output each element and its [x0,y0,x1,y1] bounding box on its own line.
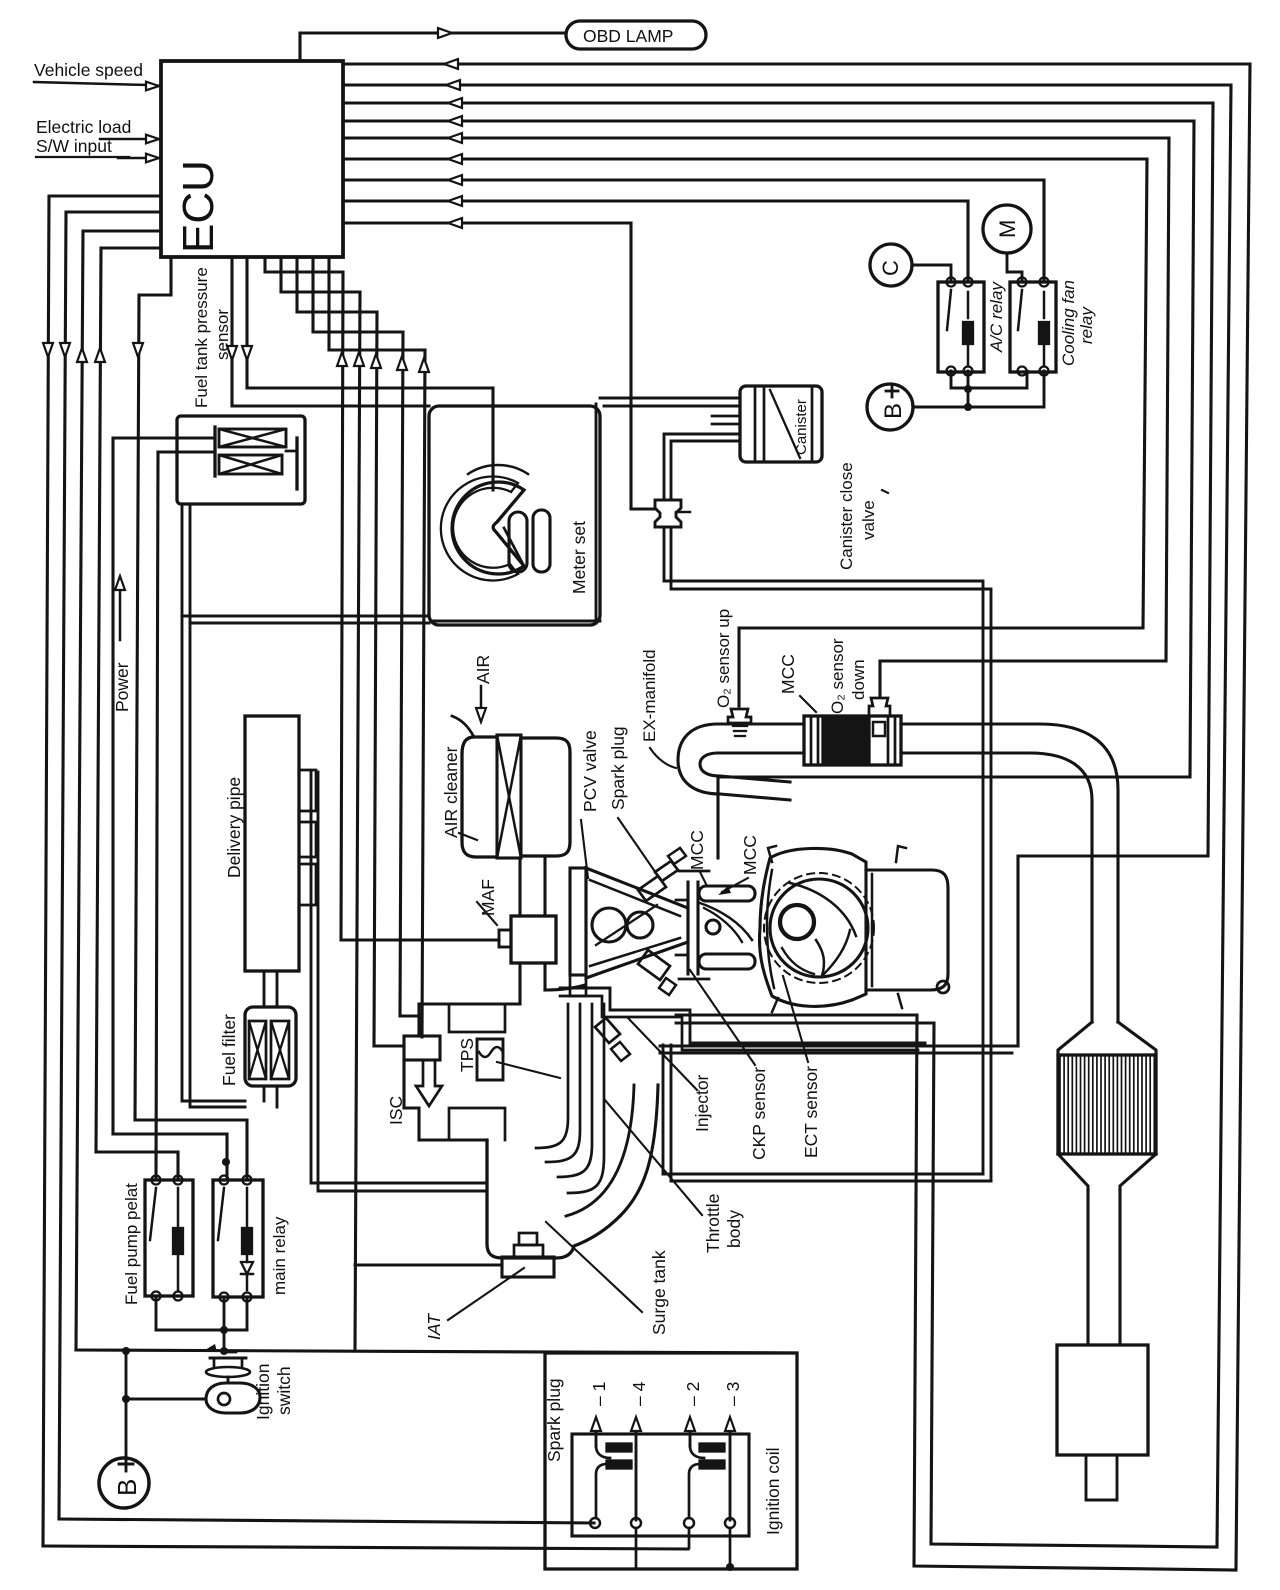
coil bottom wire 2 [688,1528,691,1548]
center circle [706,920,720,934]
FTP wire 2 [158,451,215,454]
bellhousing outline [760,848,867,1006]
svg-text:body: body [724,1210,744,1248]
fuel pump relay box [145,1180,193,1296]
svg-text:Surge tank: Surge tank [649,1250,669,1335]
svg-text:Ignition: Ignition [253,1364,273,1420]
AIR arrow [480,686,483,706]
svg-text:Vehicle speed: Vehicle speed [34,60,143,80]
svg-text:– 3: – 3 [723,1382,743,1406]
svg-text:TPS: TPS [457,1038,477,1072]
engine mount steps lower [560,988,925,1043]
svg-text:MCC: MCC [778,654,798,694]
gauge top arc [468,465,528,474]
main relay diode [241,1262,253,1274]
ignition switch flange [206,1367,250,1377]
IAT wire [355,1264,502,1267]
IAT pointer [448,1268,524,1320]
OBD LAMP stadium [566,21,706,49]
MCC pipe upper [699,886,755,901]
coil terminals [590,1518,600,1528]
fuel line pipe pair [182,504,245,1101]
wire C to A/C relay [912,265,951,282]
meter gauge body [452,482,524,574]
surge tank body [487,1140,620,1258]
gauge needle [504,528,524,566]
exhaust manifold bend [678,724,720,794]
fuel tank pressure sensor outer box [177,416,305,504]
catalytic converter body (hatched) [1058,1055,1156,1154]
MAF sensor body [511,916,556,963]
svg-text:O₂ sensor: O₂ sensor [828,638,847,714]
O2 sensor down body [869,698,890,716]
ISC connector box [404,1036,440,1060]
wire long line to B+ [125,1351,128,1459]
svg-text:Injector: Injector [692,1074,712,1132]
AIR cleaner inlet lip [452,716,474,737]
relay bottom bus wires [951,371,1027,388]
wire D ECU-left to fuel pump relay [96,248,178,1180]
throttle body channel [419,1004,437,1036]
delivery pipe injector stub 2 [299,822,316,857]
canister stub 2 [712,415,740,418]
plug wire 4 [635,1424,638,1520]
O2 sensor up body [728,709,751,723]
long horizontal wire to ignition coil box [76,1350,797,1353]
svg-text:Spark plug: Spark plug [544,1378,564,1462]
svg-text:Throttle: Throttle [703,1194,723,1253]
exhaust manifold pipe upper [718,722,804,725]
ignition coil outer box [545,1353,797,1569]
throttle body inner arc [566,1085,634,1216]
wire FTP-sensor 2 to fuel pump relay [156,452,158,1180]
lower horizontal pipe pair [663,1173,983,1176]
ECT pipe pair [660,1045,1018,1048]
FTP coil upper X-box [219,429,286,447]
svg-text:CKP sensor: CKP sensor [749,1067,769,1160]
svg-text:Fuel pump pelat: Fuel pump pelat [122,1183,141,1305]
exhaust pipe MCC to catalyst downpipe [901,724,1118,1022]
main relay box [213,1180,263,1297]
transmission inner line [871,874,874,986]
throttle body outer arc [620,1085,658,1216]
valve outlet pipe to right run [664,527,983,1174]
svg-text:down: down [849,659,868,700]
small window on MCC [873,722,885,736]
head lower-left block [570,975,586,996]
connector C [870,244,912,286]
svg-text:C: C [878,260,903,276]
inner bottom border to ignition coil [59,1519,594,1523]
throttle lower body [449,1108,505,1140]
svg-text:Power: Power [112,662,132,712]
engine center block rails [686,882,689,974]
intake runner elbow 3 [558,1004,592,1177]
intake ports [592,908,626,942]
wire f4 to throttle body [313,257,420,1016]
MCC body [804,716,901,765]
svg-text:Spark plug: Spark plug [608,726,628,810]
AIR cleaner right housing [521,738,570,856]
svg-text:valve: valve [859,500,878,540]
svg-text:MCC: MCC [687,830,707,870]
motor M [983,205,1031,253]
meter-set bottom pipe pair [182,615,429,618]
AIR cleaner housing [462,737,497,857]
svg-text:Electric load: Electric load [36,117,131,137]
catalytic converter inlet cone [1058,1022,1092,1055]
TPS sensor [477,1039,503,1080]
svg-text:AIR: AIR [473,655,493,684]
FTP left plate [213,427,216,476]
relay bottom wires [156,1296,224,1330]
B+ top circle [867,384,913,430]
delivery pipe injector stub 1 [299,770,316,811]
svg-text:Canister: Canister [793,399,810,455]
intake duct cleaner to MAF [518,858,521,916]
wire electric load [100,138,161,141]
MAF connector stub [499,930,511,947]
filter outlet stub [263,1086,266,1101]
svg-text:IAT: IAT [424,1313,444,1340]
ignition switch stem [227,1377,230,1383]
B+ feed wire [913,371,1044,407]
svg-text:A/C relay: A/C relay [987,281,1006,353]
wire f2 to bottom line [281,257,360,1351]
svg-text:Fuel tank pressure: Fuel tank pressure [192,267,211,408]
wire f1 to MAF [265,257,499,940]
B+ battery circle [99,1458,149,1508]
svg-text:– 4: – 4 [629,1381,649,1406]
ISC hollow arrow [416,1060,442,1106]
ignition switch arrow [205,1344,217,1352]
svg-text:Delivery pipe: Delivery pipe [224,777,244,878]
surge tank pointer [546,1222,642,1312]
ECU box [161,61,343,257]
flywheel spokes [790,883,856,936]
svg-text:Ignition coil: Ignition coil [763,1447,783,1535]
wire B ECU-left inner border [59,212,161,1519]
cooling fan relay coil [1039,322,1049,344]
intake runner elbow 2 [546,1004,580,1162]
canister bottom pipe to valve [664,434,740,500]
transmission body [866,870,948,990]
wire vehicle speed into ECU [148,85,161,86]
delivery pipe body [245,716,299,971]
muffler outer box left edge and bottom [914,1015,1236,1570]
wire L1 ECU to right border [343,64,1250,1568]
rail flanges [679,870,709,873]
wire L5 ECU to O2 sensor down [343,138,1169,698]
svg-text:main relay: main relay [270,1216,289,1295]
delivery pipe injector stub 3 [299,864,316,905]
pipe pair engine to lower-right loop [676,1014,917,1017]
wire L6 ECU to O2 sensor up [343,159,1147,706]
plug wire 3 [729,1424,732,1520]
meter set box [429,406,600,625]
FTP right T plate [295,438,298,489]
wire C ECU-left to long line [76,231,161,1350]
wire ECU to OBD lamp [300,33,566,61]
ignition coil inner box [572,1434,749,1536]
svg-text:B: B [880,403,907,419]
plug wire 1 [595,1424,598,1446]
wire W1 ECU to meter gauge [247,257,493,490]
left pipe pair risers [662,1045,665,1174]
surge tank top left [449,1138,487,1141]
flywheel dashed ring [764,873,874,983]
fuel pump relay coil [173,1228,183,1254]
engine head left flange [570,868,586,975]
svg-text:sensor: sensor [213,309,232,360]
wire f5 to ISC connector [329,257,425,1037]
svg-text:O₂ sensor up: O₂ sensor up [714,609,733,708]
svg-text:B: B [112,1479,142,1496]
bellhousing inner rim [767,870,774,988]
svg-text:ECT sensor: ECT sensor [801,1066,821,1158]
delivery pipe outlet to filter [263,971,266,1007]
spark plug (engine) [638,876,666,901]
MCC 2 pointer arrow [722,878,748,892]
coil bottom wire 4 [635,1528,638,1567]
lower sensor (CKP) [595,1018,620,1043]
fuel filter body [245,1007,296,1086]
svg-text:MAF: MAF [478,879,498,916]
ignition switch body [206,1383,260,1413]
svg-text:ECU: ECU [174,160,223,253]
wire E ECU-bottom to main relay [135,257,247,1180]
FTP coil lower X-box [219,455,282,474]
muffler tail pipe [1086,1455,1117,1500]
wire A ECU-left down left border [43,196,161,1546]
cooling fan relay box [1010,282,1056,372]
TPS pointer [497,1062,560,1078]
coil bottom wire 3 [729,1528,732,1567]
injector feed pipe pair [311,772,487,1183]
svg-text:Cooling fan: Cooling fan [1059,280,1078,366]
canister pipe from meter to canister [600,397,740,400]
wire L8 ECU to A/C relay [343,201,968,282]
svg-text:AIR cleaner: AIR cleaner [441,746,461,838]
coil primary 1 [606,1443,632,1452]
meter slot 1 [509,512,527,572]
exhaust pipe to muffler [1086,1190,1089,1345]
outer bottom border [43,1546,688,1549]
catalytic converter outlet cone [1058,1154,1088,1190]
engine top mounts [768,846,776,862]
svg-text:relay: relay [1077,306,1096,344]
svg-text:– 2: – 2 [683,1382,703,1406]
wire L7 ECU to cooling fan relay [343,180,1044,282]
meter slot 2 [533,510,550,572]
intake runner to engine [545,985,585,990]
intake runner elbow 1 [536,1004,568,1148]
throttle body outline [404,1060,449,1140]
AIR cleaner filter element [497,735,521,858]
intake duct MAF to throttle [437,963,520,1004]
wire L9 ECU to canister close valve [343,223,655,509]
plug wire 2 [689,1424,692,1446]
MCC pipe lower [699,954,755,969]
svg-text:M: M [995,220,1020,238]
wire W2 ECU to meter set corner [232,257,429,406]
engine cylinder head wedge [586,868,688,978]
IAT sensor bolt [514,1245,543,1257]
svg-text:MCC: MCC [740,835,760,875]
svg-text:Fuel filter: Fuel filter [219,1014,239,1086]
coil primary 2 [699,1443,725,1452]
svg-text:OBD LAMP: OBD LAMP [583,26,673,46]
flywheel [770,879,868,977]
exhaust pipe lower run to engine [720,794,790,800]
main relay coil [242,1228,252,1254]
wire L4 ECU to engine head [343,121,1194,858]
canister close valve body [655,500,681,527]
svg-text:switch: switch [274,1366,294,1415]
IAT sensor body [502,1257,554,1277]
head-block links [676,899,688,902]
svg-text:– 1: – 1 [589,1382,609,1406]
svg-text:Canister close: Canister close [837,462,856,570]
injector (engine) [638,950,670,980]
flywheel hub [780,905,814,939]
wire to ignition switch [126,1398,206,1401]
muffler body [1057,1345,1148,1455]
canister body [740,386,822,462]
wire FTP-sensor to main relay left pin [113,438,227,1180]
svg-text:EX-manifold: EX-manifold [640,649,659,742]
power arrow annotation [119,582,122,640]
A/C relay box [938,282,984,372]
wire M to cooling fan relay [1007,253,1022,282]
wire f3 to ISC [297,257,404,1046]
fuel filter element X boxes [249,1021,266,1079]
A/C relay coil [963,322,973,344]
intake runner elbow 4 [568,1004,604,1193]
muffler inner box left edge and bottom [931,1023,1217,1547]
svg-text:Meter set: Meter set [569,521,589,594]
wire L2 ECU to inner right border [343,85,1231,1546]
throttle body pointer [605,1100,702,1215]
wire S/W input [118,157,161,160]
svg-text:PCV valve: PCV valve [580,730,600,812]
wire L3 ECU to ECT sensor line [343,103,1213,1046]
FTP wire 1 [113,437,215,440]
